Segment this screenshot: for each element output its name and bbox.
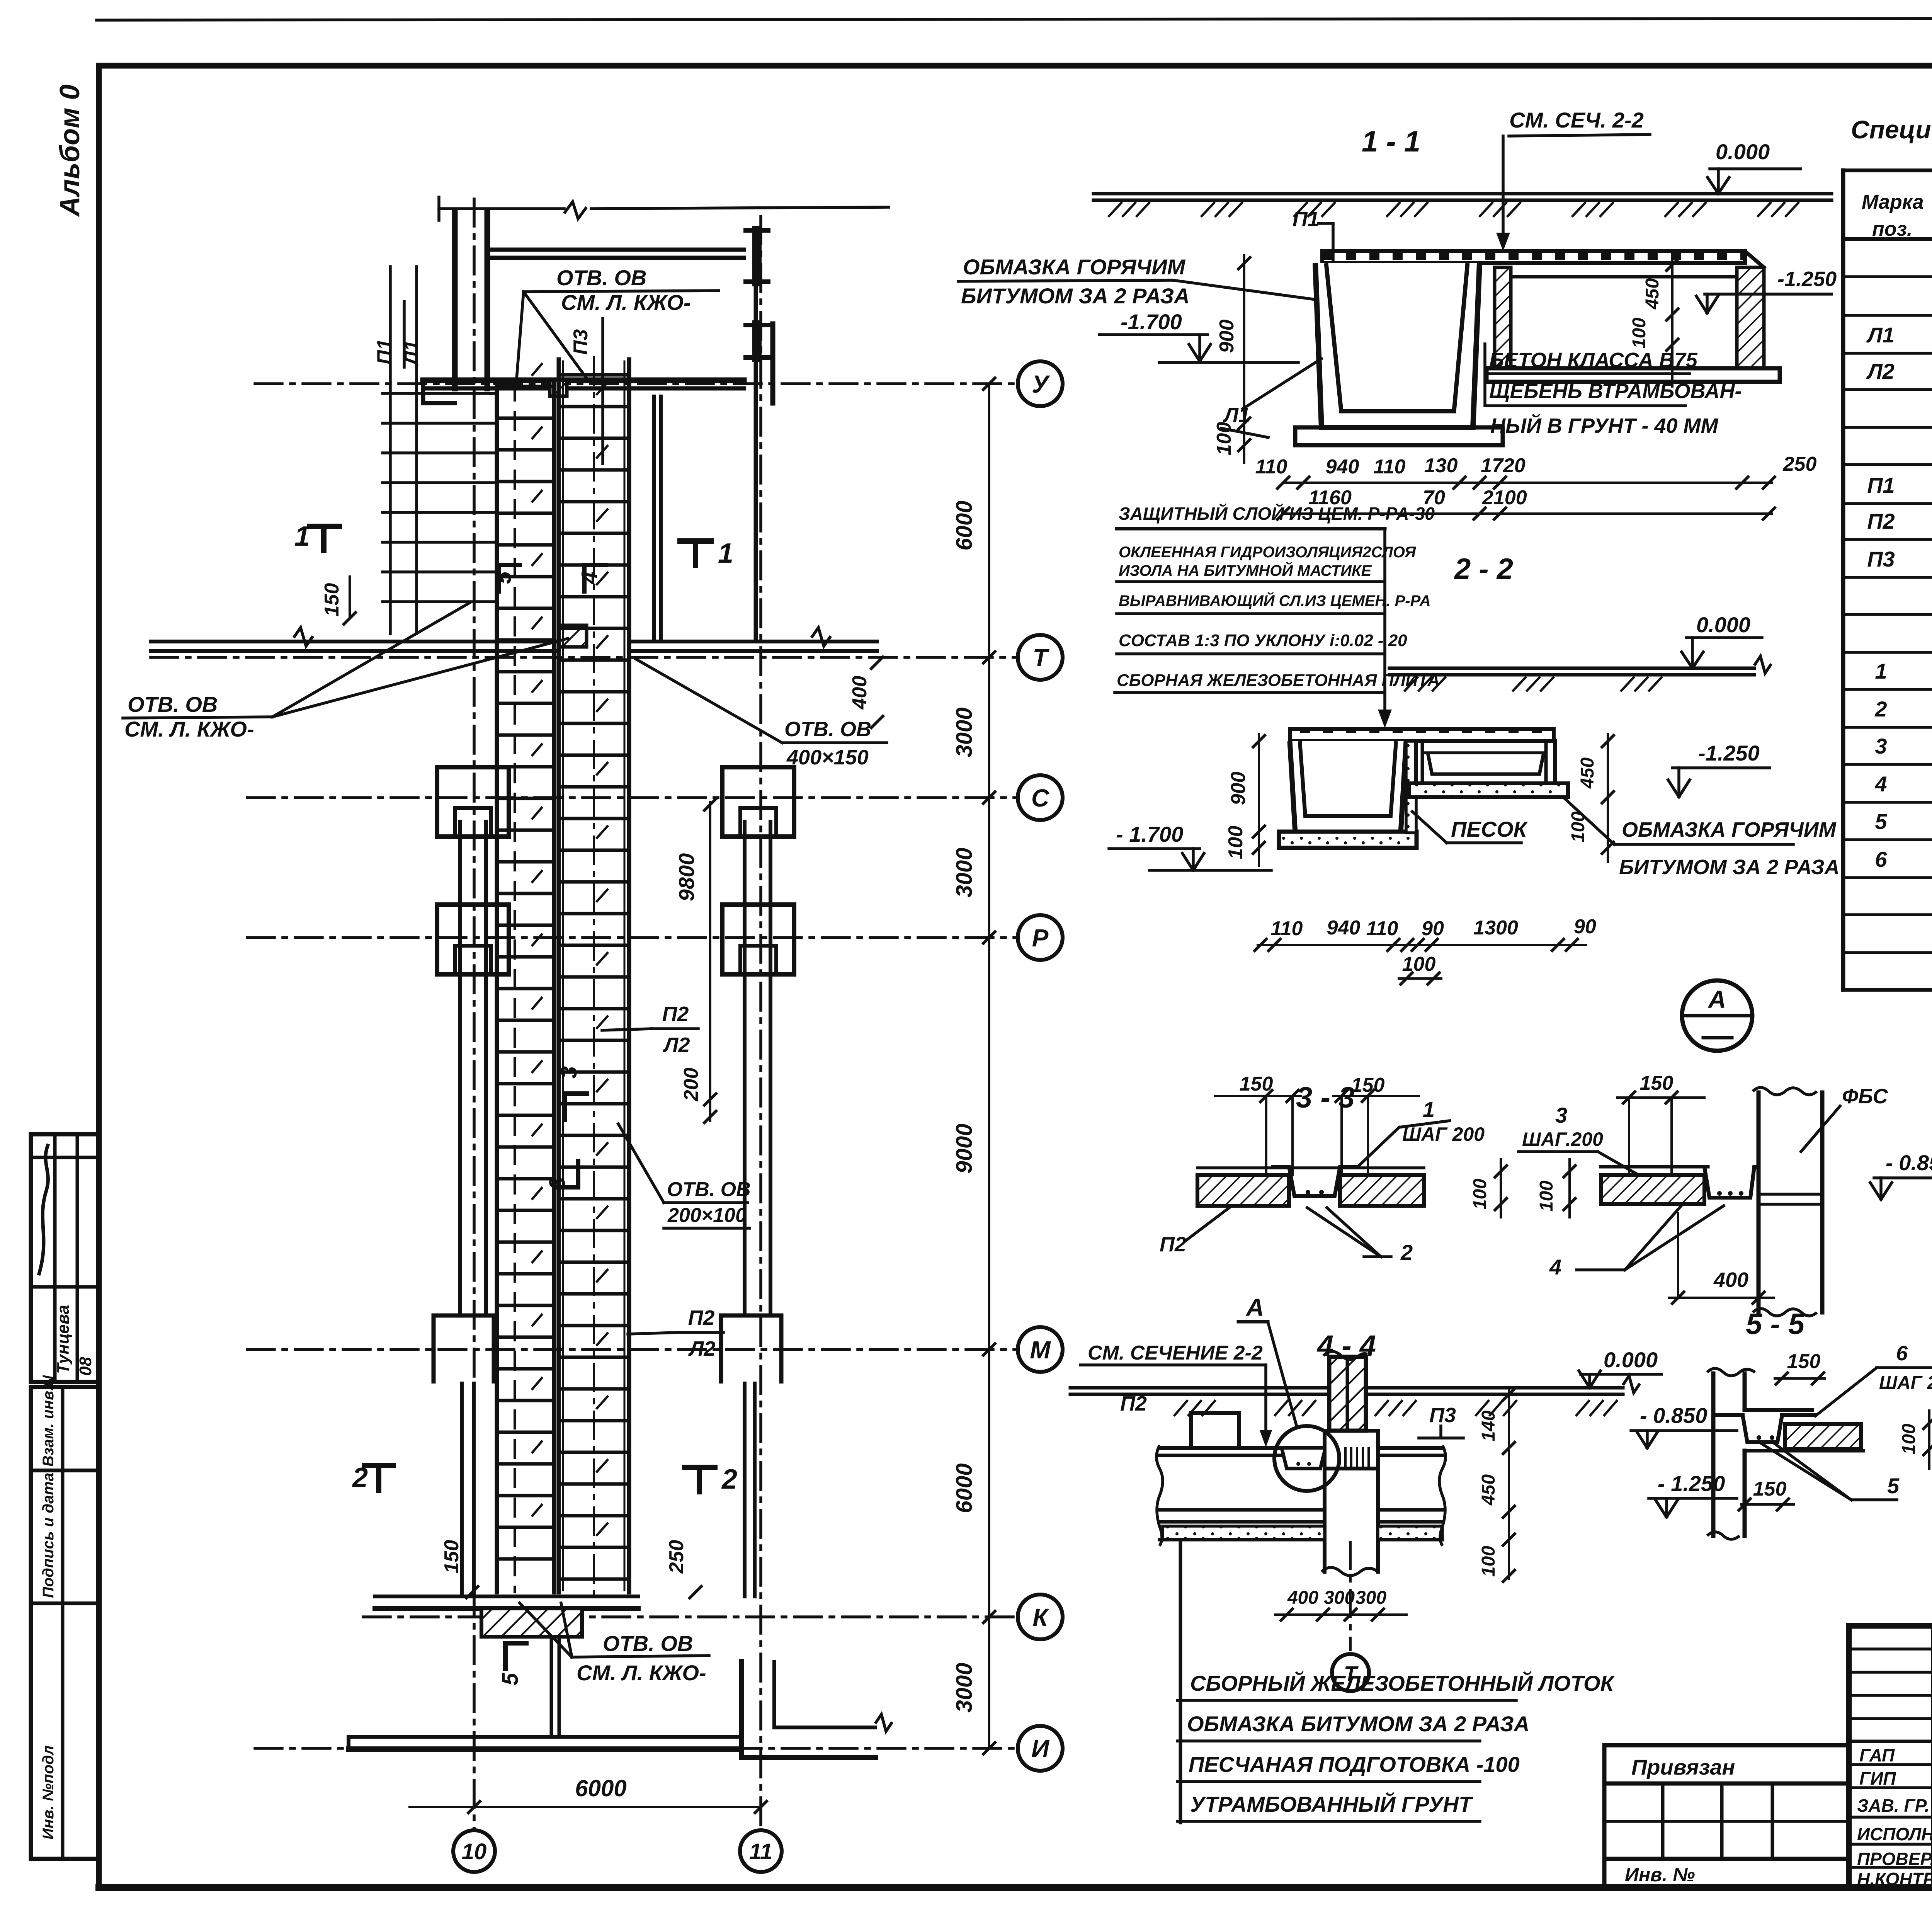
svg-text:110: 110	[1374, 456, 1406, 478]
axis line P	[247, 936, 1018, 939]
level 0.000 (1-1)	[1708, 140, 1801, 194]
svg-text:150: 150	[1640, 1072, 1673, 1094]
T axis wall	[151, 628, 877, 651]
rotated 400	[849, 657, 883, 728]
vertical axis line 10	[473, 199, 476, 1830]
dim chain 1 (1-1)	[1255, 453, 1817, 488]
svg-text:100: 100	[1470, 1179, 1490, 1210]
see section 2-2 (4-4)	[1080, 1342, 1272, 1447]
svg-text:150: 150	[1753, 1478, 1787, 1500]
svg-text:НЫЙ В ГРУНТ - 40 ММ: НЫЙ В ГРУНТ - 40 ММ	[1490, 414, 1719, 437]
svg-text:Марка: Марка	[1862, 191, 1924, 213]
svg-text:СМ. Л. КЖО-: СМ. Л. КЖО-	[561, 290, 691, 315]
svg-text:100: 100	[1899, 1424, 1919, 1455]
inventory rows	[1604, 1783, 1849, 1887]
svg-text:300: 300	[1355, 1588, 1386, 1608]
label 5 (5-5)	[1761, 1443, 1900, 1500]
svg-text:940: 940	[1326, 456, 1359, 478]
svg-text:П1: П1	[1867, 473, 1895, 497]
svg-text:08: 08	[76, 1357, 95, 1376]
axis line K	[363, 1615, 1018, 1618]
svg-text:К: К	[1032, 1603, 1049, 1631]
section mark T2 right	[685, 1464, 737, 1495]
svg-text:250: 250	[1783, 453, 1817, 475]
dims 400 300 300 (4-4)	[1275, 1588, 1406, 1620]
level -1.250 (4-4)	[1649, 1471, 1737, 1517]
svg-text:- 0.850: - 0.850	[1886, 1150, 1932, 1175]
sand joint (2-2)	[1406, 741, 1416, 833]
svg-text:П3: П3	[1867, 547, 1895, 571]
mark 5 bottom	[498, 1643, 526, 1685]
FBS label (3-3)	[1801, 1085, 1888, 1152]
svg-text:150: 150	[1240, 1073, 1273, 1095]
rotated 150 bottom	[440, 1540, 478, 1598]
svg-text:СМ. СЕЧ. 2-2: СМ. СЕЧ. 2-2	[1509, 108, 1644, 132]
svg-text:6000: 6000	[952, 1463, 977, 1513]
svg-text:110: 110	[1271, 917, 1303, 940]
underfloor structure (4-4)	[1156, 1413, 1446, 1576]
svg-text:БЕТОН КЛАССА В75: БЕТОН КЛАССА В75	[1489, 349, 1698, 372]
svg-text:Н.КОНТР: Н.КОНТР	[1857, 1869, 1932, 1889]
axis circle Т	[1018, 635, 1063, 680]
svg-text:90: 90	[1574, 916, 1596, 938]
svg-text:П2: П2	[1160, 1233, 1186, 1256]
right plate assembly (1-1)	[1486, 267, 1780, 382]
axis circle К	[1018, 1595, 1063, 1639]
svg-text:ОБМАЗКА ГОРЯЧИМ: ОБМАЗКА ГОРЯЧИМ	[1622, 818, 1837, 841]
svg-text:940: 940	[1327, 917, 1361, 939]
see section 2-2 note	[1496, 108, 1650, 251]
svg-text:1: 1	[718, 538, 733, 569]
lotok L1 (1-1)	[1315, 263, 1480, 427]
svg-text:П3: П3	[570, 329, 592, 355]
U axis wall	[423, 380, 744, 403]
section mark 1T left	[294, 521, 339, 552]
dims left (1-1)	[1213, 255, 1250, 463]
notes list (4-4)	[1177, 1542, 1615, 1823]
section mark T1 right	[680, 538, 733, 569]
svg-text:100: 100	[1478, 1546, 1499, 1577]
spec table header	[1862, 187, 1932, 240]
flag 1 shag 200 (3-3)	[1358, 1097, 1485, 1167]
svg-text:5: 5	[498, 1673, 523, 1685]
dim 150 lower (5-5)	[1739, 1478, 1794, 1510]
svg-text:100: 100	[1213, 422, 1235, 456]
detail label A (4-4)	[1238, 1293, 1296, 1425]
beton note (1-1)	[1485, 344, 1742, 437]
mid dims 100 (3-3)	[1470, 1159, 1575, 1217]
svg-text:ОКЛЕЕННАЯ ГИДРОИЗОЛЯЦИЯ2СЛОЯ: ОКЛЕЕННАЯ ГИДРОИЗОЛЯЦИЯ2СЛОЯ	[1119, 544, 1416, 561]
svg-text:ОБМАЗКА ГОРЯЧИМ: ОБМАЗКА ГОРЯЧИМ	[963, 255, 1185, 279]
svg-text:М: М	[1030, 1336, 1051, 1364]
notes block (2-2)	[1115, 504, 1440, 728]
dims 150 150 left (3-3)	[1215, 1073, 1419, 1175]
svg-text:3 - 3: 3 - 3	[1296, 1081, 1355, 1114]
marks 3	[545, 1066, 587, 1190]
svg-text:ШАГ 200: ШАГ 200	[1879, 1373, 1932, 1393]
rotated 150 top	[321, 577, 355, 624]
svg-text:П2: П2	[1867, 509, 1895, 533]
spec table title	[1851, 115, 1932, 144]
svg-text:0.000: 0.000	[1604, 1348, 1658, 1372]
svg-text:150: 150	[321, 583, 343, 617]
svg-text:Альбом 0: Альбом 0	[54, 85, 85, 217]
svg-text:100: 100	[1536, 1181, 1557, 1212]
svg-text:150: 150	[1787, 1350, 1821, 1373]
svg-text:3000: 3000	[952, 847, 977, 897]
dim 400 (3-3)	[1669, 1213, 1774, 1304]
svg-text:10: 10	[462, 1839, 487, 1864]
spec table grid	[1843, 170, 1932, 990]
svg-text:-1.250: -1.250	[1698, 741, 1760, 765]
level -0.850 (3-3)	[1870, 1150, 1932, 1200]
axis line S	[247, 796, 1018, 799]
axis circle 11	[740, 1830, 782, 1872]
label 2 (3-3)	[1307, 1208, 1413, 1264]
svg-text:- 0.850: - 0.850	[1640, 1403, 1707, 1428]
obmazka note (1-1)	[958, 255, 1315, 308]
svg-text:ЗАВ. ГР.: ЗАВ. ГР.	[1857, 1795, 1930, 1816]
svg-text:П2: П2	[662, 1002, 689, 1026]
svg-text:ФБС: ФБС	[1842, 1085, 1888, 1108]
wall (5-5)	[1707, 1368, 1812, 1539]
svg-text:900: 900	[1216, 320, 1238, 353]
label P2 L2 upper	[602, 1002, 698, 1057]
column square	[437, 905, 509, 974]
P1 plate (1-1)	[1322, 251, 1764, 267]
axis line U	[255, 382, 1018, 385]
detail circle (4-4)	[1274, 1426, 1339, 1491]
title block grid	[1849, 1626, 1932, 1887]
section 2-2 title	[1454, 553, 1513, 585]
flag 3 shag 200 (3-3)	[1519, 1103, 1638, 1175]
I axis wall	[349, 1662, 892, 1758]
section 4-4 title	[1316, 1329, 1376, 1362]
P3 label (4-4)	[1419, 1404, 1463, 1438]
rotated marks 5 4 top	[491, 565, 606, 591]
svg-text:9800: 9800	[674, 853, 699, 902]
album label	[54, 85, 85, 217]
central wall (4-4)	[1323, 1351, 1367, 1431]
svg-text:Инв. №подл: Инв. №подл	[40, 1745, 57, 1840]
svg-text:450: 450	[1478, 1474, 1499, 1506]
node circle A	[1682, 980, 1752, 1051]
level -1.250 (1-1)	[1696, 267, 1837, 313]
svg-text:ОТВ. ОВ: ОТВ. ОВ	[784, 718, 871, 741]
svg-text:150: 150	[440, 1540, 463, 1574]
svg-text:9000: 9000	[952, 1123, 977, 1173]
level -1.700 (2-2)	[1109, 822, 1271, 870]
P1 label (1-1)	[1293, 208, 1333, 261]
axis circle У	[1018, 361, 1063, 406]
flag 6 shag 200 (5-5)	[1815, 1342, 1932, 1416]
svg-text:Л1: Л1	[1866, 323, 1895, 347]
dim 200	[680, 1068, 716, 1105]
svg-text:130: 130	[1424, 454, 1458, 477]
channel profile (5-5)	[1714, 1415, 1863, 1451]
svg-text:П2: П2	[688, 1306, 715, 1329]
L1 label (1-1)	[1221, 359, 1321, 437]
P2 plate (2-2)	[1290, 729, 1554, 741]
lotok (2-2)	[1290, 741, 1406, 833]
axis line T	[151, 656, 1018, 659]
svg-text:110: 110	[1255, 456, 1287, 478]
svg-text:ИЗОЛА НА БИТУМНОЙ МАСТИКЕ: ИЗОЛА НА БИТУМНОЙ МАСТИКЕ	[1119, 561, 1372, 579]
svg-text:Тунцева: Тунцева	[54, 1305, 73, 1374]
right trough (2-2)	[1409, 741, 1568, 797]
pesok label (2-2)	[1412, 812, 1528, 843]
dims 150 right (3-3)	[1617, 1072, 1704, 1175]
dim chain (2-2)	[1255, 916, 1596, 984]
section 1-1 title	[1362, 125, 1420, 158]
svg-text:У: У	[1032, 370, 1050, 398]
margin stamp upper box	[31, 1134, 99, 1382]
svg-text:П1: П1	[373, 339, 396, 364]
svg-text:Л2: Л2	[662, 1033, 690, 1057]
svg-text:4: 4	[577, 572, 602, 584]
svg-text:400: 400	[849, 676, 871, 710]
axis line I	[255, 1747, 1018, 1750]
svg-text:Инв. №: Инв. №	[1625, 1864, 1695, 1886]
svg-text:6: 6	[1875, 847, 1887, 871]
axis circle Р	[1018, 915, 1063, 960]
svg-text:450: 450	[1577, 757, 1598, 789]
ground line 1-1	[1094, 194, 1832, 216]
dim 9800	[674, 799, 716, 1123]
section mark 2T left	[352, 1462, 393, 1493]
svg-text:900: 900	[1227, 772, 1250, 805]
svg-text:100: 100	[1225, 826, 1247, 859]
svg-text:0.000: 0.000	[1716, 140, 1770, 164]
dim line vertical	[983, 378, 995, 1754]
svg-text:Р: Р	[1032, 924, 1049, 952]
title block outer	[1849, 1626, 1932, 1887]
svg-text:450: 450	[1642, 278, 1663, 310]
left long wall	[434, 822, 494, 1596]
label OTV OV 200x100	[618, 1124, 751, 1228]
dims left (2-2)	[1225, 734, 1265, 866]
svg-text:ГАП: ГАП	[1859, 1745, 1895, 1765]
svg-text:ОТВ. ОВ: ОТВ. ОВ	[128, 692, 218, 716]
label OTV OV bottom	[520, 1603, 709, 1685]
svg-text:ШАГ 200: ШАГ 200	[1402, 1123, 1485, 1145]
axis line M	[247, 1348, 1018, 1351]
svg-text:СМ. Л. КЖО-: СМ. Л. КЖО-	[577, 1661, 706, 1685]
svg-text:3: 3	[1555, 1103, 1567, 1127]
svg-text:-1.250: -1.250	[1777, 267, 1837, 291]
svg-text:2100: 2100	[1482, 487, 1527, 509]
svg-text:5: 5	[1875, 809, 1887, 834]
svg-text:П2: П2	[1120, 1392, 1147, 1415]
svg-text:4: 4	[1549, 1255, 1561, 1279]
T crossing hatch	[559, 625, 587, 647]
dim labels vertical	[952, 500, 977, 1712]
K axis wall	[375, 1596, 638, 1637]
column square	[437, 767, 509, 837]
svg-text:100: 100	[1629, 318, 1650, 349]
svg-text:УТРАМБОВАННЫЙ ГРУНТ: УТРАМБОВАННЫЙ ГРУНТ	[1190, 1792, 1474, 1816]
svg-text:3000: 3000	[952, 1663, 977, 1712]
dims right (1-1)	[1629, 255, 1678, 386]
label P1 L1 rotated	[373, 267, 423, 634]
svg-text:П1: П1	[1293, 208, 1319, 231]
svg-text:ЩЕБЕНЬ ВТРАМБОВАН-: ЩЕБЕНЬ ВТРАМБОВАН-	[1489, 379, 1742, 403]
svg-text:П3: П3	[1429, 1404, 1456, 1427]
P3 label rotated	[570, 318, 603, 464]
svg-text:5 - 5: 5 - 5	[1746, 1308, 1805, 1341]
svg-text:3000: 3000	[952, 707, 977, 757]
axis circle 10	[453, 1830, 495, 1872]
svg-text:6000: 6000	[952, 500, 977, 550]
svg-text:ОБМАЗКА БИТУМОМ ЗА 2 РАЗА: ОБМАЗКА БИТУМОМ ЗА 2 РАЗА	[1187, 1712, 1529, 1736]
dims column right (4-4)	[1478, 1388, 1515, 1582]
svg-text:5: 5	[1887, 1474, 1900, 1498]
top room walls	[455, 211, 773, 641]
svg-text:3: 3	[1875, 734, 1887, 758]
ground line 2-2	[1389, 656, 1771, 691]
title block roles	[1857, 1745, 1932, 1889]
upper ladder lines	[383, 393, 496, 602]
svg-text:ИСПОЛН.: ИСПОЛН.	[1857, 1824, 1932, 1844]
svg-text:200×100: 200×100	[667, 1204, 747, 1227]
svg-text:400: 400	[1713, 1268, 1748, 1292]
right channel band	[559, 357, 629, 1596]
bottom dim 6000	[410, 1775, 767, 1813]
ground slab line (4-4)	[1070, 1376, 1640, 1415]
level -0.850 (4-4)	[1631, 1403, 1737, 1448]
svg-text:4: 4	[1874, 772, 1887, 796]
label OTV OV left	[123, 603, 568, 741]
svg-text:140: 140	[1478, 1411, 1499, 1441]
column square	[722, 767, 794, 837]
svg-text:1: 1	[1423, 1097, 1435, 1121]
right slab (3-3)	[1601, 1167, 1759, 1204]
svg-text:А: А	[1708, 985, 1726, 1013]
svg-text:С: С	[1031, 784, 1049, 812]
svg-text:2: 2	[1874, 697, 1887, 721]
svg-text:ПЕСОК: ПЕСОК	[1451, 817, 1528, 841]
lotok base slab (1-1)	[1295, 427, 1503, 445]
svg-text:Привязан: Привязан	[1631, 1755, 1735, 1779]
label P2 L2 lower	[628, 1306, 723, 1360]
level 0.000 (2-2)	[1682, 613, 1762, 668]
svg-text:ПРОВЕР.: ПРОВЕР.	[1857, 1849, 1932, 1869]
vertical axis line 11	[759, 216, 762, 1830]
level -1.250 (2-2)	[1668, 741, 1770, 797]
svg-text:1300: 1300	[1473, 917, 1518, 939]
svg-text:2: 2	[721, 1464, 737, 1495]
svg-text:400×150: 400×150	[786, 746, 869, 769]
sheet top edge line	[97, 18, 1932, 20]
svg-text:5: 5	[491, 571, 516, 584]
dim 100 right (5-5)	[1899, 1411, 1932, 1469]
svg-text:- 1.700: - 1.700	[1116, 822, 1183, 846]
right long wall	[721, 822, 781, 1596]
svg-text:Л2: Л2	[688, 1337, 715, 1360]
svg-text:1: 1	[1875, 659, 1887, 683]
svg-text:1 - 1: 1 - 1	[1362, 125, 1420, 158]
lotok base slab (2-2)	[1279, 832, 1417, 848]
P2 label (3-3)	[1160, 1206, 1232, 1256]
FBS wall (3-3)	[1753, 1087, 1822, 1316]
svg-text:250: 250	[665, 1540, 688, 1574]
svg-text:ЗАЩИТНЫЙ СЛОЙ ИЗ ЦЕМ. Р-РА-30: ЗАЩИТНЫЙ СЛОЙ ИЗ ЦЕМ. Р-РА-30	[1119, 504, 1435, 524]
svg-text:Подпись и дата: Подпись и дата	[40, 1473, 57, 1598]
axis circle И	[1018, 1726, 1063, 1771]
svg-text:ГИП: ГИП	[1859, 1768, 1896, 1789]
svg-text:ОТВ. ОВ: ОТВ. ОВ	[603, 1631, 693, 1656]
svg-text:ОТВ. ОВ: ОТВ. ОВ	[556, 265, 646, 290]
left channel band	[497, 364, 554, 1592]
svg-text:200: 200	[680, 1068, 702, 1102]
dim chain 2 (1-1)	[1277, 487, 1775, 519]
section 5-5 title	[1746, 1308, 1805, 1341]
dims right (2-2)	[1568, 734, 1614, 862]
rotated 250 bottom	[665, 1540, 701, 1598]
svg-text:0.000: 0.000	[1696, 613, 1750, 637]
dim 150 top (5-5)	[1775, 1350, 1825, 1384]
svg-text:2 - 2: 2 - 2	[1454, 553, 1513, 585]
P2 label (4-4)	[1120, 1392, 1147, 1415]
svg-text:2: 2	[1400, 1240, 1413, 1264]
label OTV OV 400x150	[636, 659, 887, 769]
svg-text:90: 90	[1422, 917, 1444, 940]
svg-text:БИТУМОМ ЗА 2 РАЗА: БИТУМОМ ЗА 2 РАЗА	[1619, 856, 1840, 879]
label 4 (3-3)	[1549, 1206, 1724, 1279]
section 3-3 title	[1296, 1081, 1355, 1114]
obmazka note (2-2)	[1564, 798, 1840, 879]
svg-text:СОСТАВ 1:3 ПО УКЛОНУ i:0.02 -: СОСТАВ 1:3 ПО УКЛОНУ i:0.02 - 20	[1119, 631, 1407, 650]
svg-text:1720: 1720	[1481, 454, 1526, 477]
level -1.700 (1-1)	[1099, 310, 1298, 362]
svg-text:БИТУМОМ ЗА 2 РАЗА: БИТУМОМ ЗА 2 РАЗА	[961, 284, 1190, 308]
svg-text:3: 3	[556, 1066, 582, 1079]
level 0.000 (4-4)	[1579, 1348, 1662, 1388]
svg-text:-1.700: -1.700	[1121, 310, 1182, 334]
svg-text:100: 100	[1402, 953, 1436, 975]
right wall pilaster I-beams	[746, 230, 768, 357]
svg-text:СБОРНЫЙ ЖЕЛЕЗОБЕТОННЫЙ ЛОТОК: СБОРНЫЙ ЖЕЛЕЗОБЕТОННЫЙ ЛОТОК	[1190, 1671, 1615, 1695]
privyazan box	[1604, 1745, 1849, 1783]
left slab (3-3)	[1197, 1167, 1424, 1206]
svg-text:6: 6	[1896, 1342, 1908, 1365]
T1 room inner wall	[654, 397, 661, 641]
svg-text:6000: 6000	[575, 1775, 626, 1801]
svg-text:400: 400	[1287, 1588, 1318, 1608]
svg-text:Спецификация элементов подпо: Спецификация элементов подпольных канало…	[1851, 115, 1932, 144]
svg-text:11: 11	[749, 1839, 772, 1864]
svg-text:Л2: Л2	[1866, 359, 1895, 383]
svg-text:110: 110	[1366, 917, 1398, 940]
margin stamp lower box	[31, 1375, 99, 1859]
column square	[722, 905, 794, 974]
svg-text:А: А	[1245, 1293, 1264, 1321]
svg-text:ШАГ.200: ШАГ.200	[1522, 1128, 1603, 1150]
spec table rows	[1866, 247, 1932, 984]
svg-text:ОТВ. ОВ: ОТВ. ОВ	[667, 1178, 751, 1201]
svg-text:СМ. СЕЧЕНИЕ 2-2: СМ. СЕЧЕНИЕ 2-2	[1088, 1342, 1263, 1364]
svg-text:И: И	[1031, 1735, 1050, 1763]
svg-text:СМ. Л. КЖО-: СМ. Л. КЖО-	[124, 717, 254, 741]
label OTV OV top	[517, 265, 719, 379]
axis circle С	[1018, 775, 1063, 820]
svg-text:ПЕСЧАНАЯ ПОДГОТОВКА -100: ПЕСЧАНАЯ ПОДГОТОВКА -100	[1189, 1752, 1520, 1777]
T axis circle (4-4)	[1332, 1542, 1369, 1691]
svg-text:150: 150	[1351, 1074, 1385, 1096]
channel below K	[551, 1637, 559, 1737]
svg-text:Взам. инв.N: Взам. инв.N	[40, 1375, 57, 1467]
svg-text:поз.: поз.	[1872, 218, 1913, 240]
